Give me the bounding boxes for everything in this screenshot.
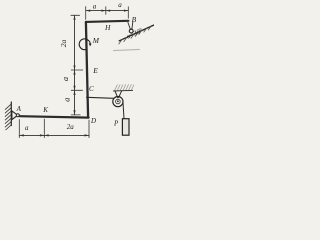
background paper xyxy=(0,0,154,143)
pin circle at A xyxy=(16,114,19,117)
pin support triangle at A xyxy=(12,111,18,120)
incline hatching xyxy=(119,26,152,45)
beam A-K-D (bottom horizontal member) xyxy=(20,116,89,117)
bottom dim arrowheads xyxy=(19,134,23,136)
svg-text:P: P xyxy=(113,120,119,128)
wall hatching at support A xyxy=(5,104,11,130)
svg-text:A: A xyxy=(16,105,22,113)
left dim tick top xyxy=(71,14,80,16)
svg-text:K: K xyxy=(42,106,48,114)
weight P block xyxy=(122,119,129,136)
ceiling line of pulley bracket xyxy=(113,89,132,92)
svg-text:2a: 2a xyxy=(59,39,68,47)
svg-text:D: D xyxy=(90,117,96,125)
left dim tick bottom xyxy=(71,114,80,116)
wall line at A xyxy=(10,102,12,126)
top dim arrowheads xyxy=(86,10,90,12)
svg-text:a: a xyxy=(63,98,72,102)
left dim tick at C level xyxy=(71,89,82,91)
incline surface xyxy=(119,25,154,41)
top member to B xyxy=(86,21,128,22)
ceiling hatching above pulley xyxy=(115,85,134,91)
faint smudge line under incline xyxy=(114,49,140,50)
top dim middle tick xyxy=(105,7,107,15)
svg-text:C: C xyxy=(89,85,94,93)
bottom dim extension at K xyxy=(43,119,45,138)
pulley hub xyxy=(117,100,119,102)
rope C to pulley xyxy=(87,97,114,98)
pulley inner rim xyxy=(116,99,121,104)
roller link from member end xyxy=(128,22,133,30)
pulley bracket fork xyxy=(115,91,122,98)
top dim right extension xyxy=(127,7,129,18)
bottom dimension line xyxy=(19,134,89,136)
roller at B xyxy=(129,29,133,33)
left dim arrowheads xyxy=(73,15,75,19)
svg-text:H: H xyxy=(104,23,111,32)
svg-text:a: a xyxy=(118,1,122,9)
svg-text:a: a xyxy=(25,124,29,132)
left dimension line xyxy=(74,15,76,114)
column D-E-C (vertical member) xyxy=(86,22,88,118)
svg-text:a: a xyxy=(93,2,97,10)
bottom dim extension at A xyxy=(18,120,20,138)
top dim left extension xyxy=(85,7,87,20)
bottom dim extension at D xyxy=(88,120,90,138)
rope down to weight xyxy=(123,101,124,119)
svg-text:M: M xyxy=(92,36,100,45)
pulley wheel xyxy=(113,97,123,107)
left dim tick at E level xyxy=(71,69,83,71)
svg-text:a: a xyxy=(61,77,70,81)
top dimension line xyxy=(86,10,128,12)
svg-text:E: E xyxy=(92,66,98,75)
moment M circular arrow xyxy=(79,39,90,50)
svg-text:2a: 2a xyxy=(67,123,75,131)
